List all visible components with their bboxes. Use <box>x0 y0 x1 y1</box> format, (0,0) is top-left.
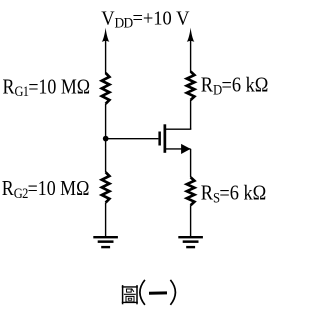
ground left <box>93 236 118 248</box>
svg-text:RD=6 kΩ: RD=6 kΩ <box>201 73 269 97</box>
power VDD arrow (left rail) <box>102 28 110 42</box>
wire: RS bottom to ground <box>190 205 192 236</box>
value label RD=6 kohm <box>201 73 269 97</box>
resistor RS <box>187 177 195 205</box>
transistor M1 (NMOS) channel bar <box>164 124 167 153</box>
wire: VDD rail left vertical <box>105 36 107 74</box>
transistor M1 source arrowhead <box>181 144 191 154</box>
resistor RD <box>187 72 195 101</box>
power VDD arrow (right rail) <box>187 28 195 42</box>
wire: source corner down to RS <box>190 149 192 177</box>
caption: CJK character "tu" (figure) <box>122 285 138 304</box>
resistor RG1 <box>102 73 110 104</box>
wire: RG2 bottom to ground <box>105 203 107 236</box>
wire: drain horizontal <box>165 128 191 130</box>
value label RS=6 kohm <box>201 181 267 205</box>
ground right <box>178 236 203 248</box>
value label RG1=10 Mohm <box>3 75 91 99</box>
caption: open paren <box>140 280 145 305</box>
wire: gate horizontal <box>106 138 159 140</box>
svg-text:RS=6 kΩ: RS=6 kΩ <box>201 181 267 205</box>
wire: source horizontal <box>165 148 191 150</box>
transistor M1 (NMOS) gate bar <box>158 132 161 146</box>
svg-text:VDD=+10 V: VDD=+10 V <box>101 8 189 31</box>
svg-text:RG1=10 MΩ: RG1=10 MΩ <box>3 75 91 99</box>
net label VDD=+10 V <box>101 8 189 31</box>
wire: RD bottom to drain corner <box>190 100 192 129</box>
value label RG2=10 Mohm <box>2 177 90 201</box>
caption: close paren <box>170 280 175 305</box>
caption: dash (one) <box>149 291 167 294</box>
node: gate junction dot <box>103 136 109 142</box>
wire: RG1 bottom to node <box>105 104 107 172</box>
wire: VDD rail right vertical <box>190 36 192 72</box>
resistor RG2 <box>102 172 110 202</box>
svg-text:RG2=10 MΩ: RG2=10 MΩ <box>2 177 90 201</box>
